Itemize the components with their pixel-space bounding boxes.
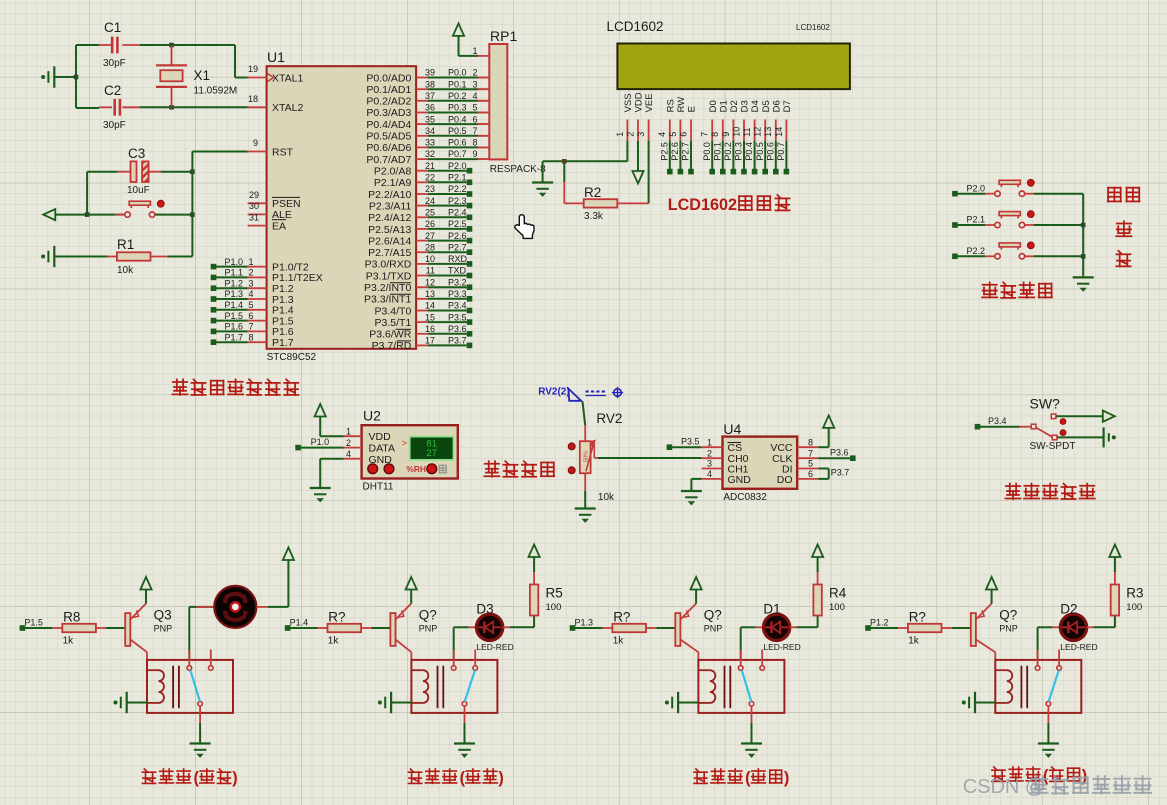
svg-text:P3.7/RD: P3.7/RD [372,340,412,352]
push button P2.1 [957,224,985,226]
svg-text:7: 7 [808,448,813,458]
svg-text:4: 4 [346,449,351,459]
pin P0.5/AD5 (34) wire to RP1 [416,135,428,137]
wire [1034,255,1083,257]
wire (pole to LED D2) [1037,627,1039,658]
svg-text:LCD1602: LCD1602 [796,23,830,32]
led D3 LED-RED [476,614,502,640]
svg-text:LCD1602: LCD1602 [607,19,664,34]
svg-text:1: 1 [249,257,254,267]
pin CH0 (2) [702,457,723,459]
svg-text:P3.4: P3.4 [988,416,1007,426]
LCD pin 8 D1 [722,120,724,141]
svg-text:D3: D3 [476,602,493,617]
svg-text:11: 11 [742,127,752,136]
svg-text:P0.0: P0.0 [702,142,712,161]
svg-text:2: 2 [707,448,712,458]
svg-text:D6: D6 [771,100,782,112]
svg-text:P3.4: P3.4 [448,301,467,311]
relay contacts [1035,666,1040,671]
resistor pack RP1 RESPACK-8 [478,55,489,57]
collector wire [396,640,412,653]
relay contacts [451,666,456,671]
ground (DHT11) [310,487,331,489]
svg-text:P2.6: P2.6 [670,142,680,161]
pin P0.2/AD2 (37) wire to RP1 [416,100,428,102]
svg-text:6: 6 [678,132,688,137]
wire (LED to R4) [790,626,797,628]
transistor Q? PNP [675,613,680,646]
svg-text:5: 5 [472,103,477,113]
svg-text:LED-RED: LED-RED [476,642,513,652]
svg-text:P2.1/A9: P2.1/A9 [374,177,412,189]
svg-text:DATA: DATA [369,442,395,454]
svg-text:1k: 1k [63,636,75,647]
wire [583,402,586,426]
svg-text:P0.2: P0.2 [448,91,467,101]
ground (coil, lying) [665,701,669,705]
svg-text:P2.5: P2.5 [659,142,669,161]
ground (relay contact) [1038,742,1059,744]
wire [371,627,390,629]
LCD1602 display body [617,44,850,90]
wire [86,172,88,215]
svg-text:3: 3 [707,459,712,469]
overline INT1 [390,293,411,295]
svg-text:R1: R1 [117,237,134,252]
svg-text:D1: D1 [718,100,729,112]
svg-text:14: 14 [774,127,784,137]
text jidianqi chushi [142,769,155,783]
push button P2.2 [957,255,985,257]
svg-text:Q?: Q? [704,608,722,623]
svg-text:7: 7 [700,132,710,137]
junction [562,159,567,164]
svg-text:1k: 1k [613,636,625,647]
relay coil [147,669,159,671]
svg-text:R4: R4 [829,586,847,601]
LCD pin 3 VEE [648,120,650,141]
svg-text:P2.2/A10: P2.2/A10 [368,189,411,201]
svg-text:2: 2 [472,68,477,78]
svg-text:P0.7: P0.7 [776,142,786,161]
pin P2.2/A10 (23) with terminal P2.2 [416,193,428,195]
ground (coil, lying) [114,701,118,705]
pin P2.4/A12 (25) with terminal P2.4 [416,216,428,218]
text huoer chuanganqi [1005,484,1020,499]
pin P1.1/T2EX (2) with terminal P1.1 [248,276,267,278]
svg-text:P1.0: P1.0 [225,257,244,267]
svg-text:30pF: 30pF [103,58,126,69]
terminal P2.2 [952,254,958,260]
pin P0.6/AD6 (33) wire to RP1 [416,146,428,148]
wire (pole to LED D1) [740,627,742,658]
svg-text:R3: R3 [1126,586,1143,601]
pin P3.3/INT1 (13) with terminal P3.3 [416,298,428,300]
wire [54,76,76,78]
svg-text:38: 38 [425,79,435,89]
svg-text:(: ( [460,769,466,787]
pin P1.3 (4) with terminal P1.3 [248,298,267,300]
terminal P2.0 [952,191,958,197]
svg-text:D1: D1 [763,602,780,617]
power (R5) [529,545,540,558]
svg-text:R2: R2 [584,185,601,200]
svg-text:32: 32 [425,149,435,159]
collector wire [976,640,995,653]
pin P2.3/A11 (24) with terminal P2.3 [416,205,428,207]
pin P3.6/WR (16) with terminal P3.6 [416,333,428,335]
pin P2.5/A13 (26) with terminal P2.5 [416,228,428,230]
svg-text:P3.5: P3.5 [681,437,700,447]
ground (left of C1/C2) [41,75,45,79]
resistor R? 1k [575,627,603,629]
svg-text:26: 26 [425,219,435,229]
pin P3.1/TXD (11) with terminal TXD [416,275,428,277]
relay box [147,660,233,713]
text du [439,465,446,473]
svg-text:23: 23 [425,184,435,194]
svg-text:16: 16 [425,324,435,334]
junction [74,75,79,80]
svg-text:14: 14 [425,301,435,311]
svg-text:31: 31 [249,212,259,222]
pin XTAL1 (19) [248,77,267,79]
svg-text:D2: D2 [1060,602,1077,617]
wire (NO throw to power arrow) [1056,415,1103,417]
terminal P1.2 [865,625,871,631]
junction [1081,254,1086,259]
svg-text:P3.7: P3.7 [831,467,850,477]
pin P2.0/A8 (21) with terminal P2.0 [416,170,428,172]
svg-text:12: 12 [425,277,435,287]
svg-text:P2.2: P2.2 [448,184,467,194]
transistor Q3 PNP [125,613,130,646]
svg-text:18: 18 [248,94,258,104]
svg-text:PNP: PNP [154,624,173,634]
svg-text:15: 15 [425,312,435,322]
svg-text:(: ( [194,769,200,787]
svg-text:U4: U4 [723,421,741,437]
pin P2.7/A15 (28) with terminal P2.7 [416,251,428,253]
svg-text:>: > [402,438,408,449]
junction [1081,223,1086,228]
svg-text:36: 36 [425,103,435,113]
LCD pin 4 RS [669,120,671,141]
transistor Q? PNP [971,613,976,646]
svg-text:R5: R5 [546,586,563,601]
svg-text:P1.4: P1.4 [290,618,309,628]
svg-text:100: 100 [546,602,562,613]
svg-text:P3.2: P3.2 [448,277,467,287]
svg-text:P3.3: P3.3 [448,289,467,299]
svg-text:P2.5: P2.5 [448,219,467,229]
pin 4 RP1 [478,100,489,102]
text shezhi [1108,188,1121,202]
junction [169,105,174,110]
svg-text:GND: GND [728,474,752,486]
svg-text:8: 8 [472,138,477,148]
ground (buttons) [1073,276,1094,278]
svg-text:P0.6: P0.6 [765,142,775,161]
pin P0.4/AD4 (35) wire to RP1 [416,123,428,125]
svg-text:SW-SPDT: SW-SPDT [1030,441,1076,452]
led D2 LED-RED [1060,614,1086,640]
pin EA (31) [248,225,267,227]
svg-text:P3.5: P3.5 [448,312,467,322]
svg-text:D0: D0 [708,100,719,112]
svg-text:P1.3: P1.3 [225,289,244,299]
ground (coil, lying) [962,701,966,705]
svg-text:2: 2 [625,132,635,137]
svg-text:P2.7/A15: P2.7/A15 [368,247,411,259]
relay coil [698,669,710,671]
svg-text:P2.1: P2.1 [967,215,986,225]
svg-text:TXD: TXD [448,266,467,276]
svg-text:R8: R8 [63,610,80,625]
relay core [724,666,726,709]
svg-text:EA: EA [272,220,286,232]
svg-text:8: 8 [808,437,813,447]
pin 5 RP1 [478,112,489,114]
svg-text:SW?: SW? [1030,396,1061,412]
capacitor C2 [99,106,112,108]
ground (lying, switch) [1112,435,1116,439]
relay switch arm [190,670,200,701]
svg-text:28: 28 [425,242,435,252]
svg-text:17: 17 [425,336,435,346]
svg-text:P0.2: P0.2 [723,142,733,161]
junction [190,212,195,217]
svg-text:P0.2/AD2: P0.2/AD2 [366,96,411,108]
svg-text:1: 1 [346,426,351,436]
svg-text:P2.0: P2.0 [967,183,986,193]
svg-text:C1: C1 [104,20,121,35]
junction node XTAL1 top [169,43,174,48]
svg-text:VDD: VDD [369,431,392,443]
svg-text:(: ( [745,769,751,787]
DHT11 display screen [410,437,454,460]
svg-text:P0.0/AD0: P0.0/AD0 [366,72,411,84]
terminal P2.1 [952,222,958,228]
svg-text:3: 3 [249,278,254,288]
svg-text:XTAL2: XTAL2 [272,102,303,114]
svg-text:P0.4/AD4: P0.4/AD4 [366,119,411,131]
svg-text:P1.2: P1.2 [870,618,889,628]
svg-text:RP1: RP1 [490,28,517,44]
svg-text:P3.1/TXD: P3.1/TXD [366,270,412,282]
pin CS (1) terminal P3.5 [667,444,673,450]
LCD pin 6 E [690,120,692,141]
power (R3) [1109,545,1120,558]
pin P3.2/INT0 (12) with terminal P3.2 [416,286,428,288]
svg-text:P2.2: P2.2 [967,246,986,256]
capacitor C3 10uF [87,171,117,173]
svg-text:P2.1: P2.1 [448,173,467,183]
LCD pin 14 D7 [785,120,787,141]
LCD pin 7 D0 [711,120,713,141]
svg-text:7: 7 [249,322,254,332]
svg-text:P0.1: P0.1 [448,79,467,89]
pin CLK (7) terminal P3.6 [797,457,818,459]
svg-text:10: 10 [731,127,741,137]
svg-text:P0.4: P0.4 [448,114,467,124]
wire (motor to power) [256,606,268,608]
junction [85,212,90,217]
svg-text:37: 37 [425,91,435,101]
svg-text:P1.5: P1.5 [24,618,43,628]
svg-text:RS: RS [665,99,676,112]
svg-text:P1.6: P1.6 [225,322,244,332]
terminal P3.4 [975,424,981,430]
power (Q3 emitter) [140,577,151,590]
svg-text:U2: U2 [363,408,381,424]
svg-text:P0.6: P0.6 [448,138,467,148]
svg-text:P1.7: P1.7 [272,337,294,349]
svg-text:10uF: 10uF [127,185,150,196]
ground (RV2) [575,507,596,509]
relay core [172,666,174,709]
svg-text:10k: 10k [117,265,134,276]
collector wire [680,640,698,653]
wire [320,435,343,437]
svg-text:RW: RW [676,97,687,113]
svg-text:): ) [232,769,237,787]
svg-text:6: 6 [808,469,813,479]
svg-text:R?: R? [613,610,630,625]
svg-text:X1: X1 [194,68,211,83]
svg-text:30: 30 [249,201,259,211]
svg-text:13: 13 [425,289,435,299]
pin P1.2 (3) with terminal P1.2 [248,287,267,289]
LCD pin 2 VDD [637,120,639,141]
svg-text:1k: 1k [328,636,340,647]
resistor R4 100 [817,600,819,615]
svg-text:P1.2: P1.2 [225,278,244,288]
relay box [411,660,497,713]
svg-text:P3.3/INT1: P3.3/INT1 [364,294,411,306]
svg-text:D2: D2 [729,100,740,112]
svg-text:RXD: RXD [448,254,468,264]
pin XTAL2 (18) [248,106,267,108]
relay coil [995,669,1007,671]
svg-text:24: 24 [425,196,435,206]
svg-text:DO: DO [777,474,793,486]
wire (contact to ground) [464,706,466,723]
svg-text:39: 39 [425,68,435,78]
pin P1.4 (5) with terminal P1.4 [248,309,267,311]
pin PSEN (29) [248,202,267,204]
LCD pin 12 D5 [764,120,766,141]
svg-text:9: 9 [721,132,731,137]
wire [584,473,586,491]
svg-text:P1.4: P1.4 [225,300,244,310]
potentiometer RV2 10k [584,425,586,441]
svg-text:3.3k: 3.3k [584,211,604,222]
svg-text:P3.6: P3.6 [830,448,849,458]
wire [691,478,701,480]
svg-text:2: 2 [346,438,351,448]
pin P0.1/AD1 (38) wire to RP1 [416,88,428,90]
wire (pole to motor) [188,607,190,659]
text jidianqi xiaodu [694,769,707,783]
svg-text:): ) [784,769,789,787]
resistor R? 1k [290,627,318,629]
overline WR [396,328,412,330]
svg-text:P2.5/A13: P2.5/A13 [368,224,411,236]
ground (coil, lying) [378,701,382,705]
pin P1.5 (6) with terminal P1.5 [248,320,267,322]
pin VDD (1) [344,435,362,437]
svg-text:9: 9 [472,149,477,159]
pin P0.3/AD3 (36) wire to RP1 [416,112,428,114]
svg-text:35: 35 [425,114,435,124]
svg-text:P2.0/A8: P2.0/A8 [374,166,412,178]
svg-text:P2.3: P2.3 [448,196,467,206]
wire VEE down [648,141,650,204]
LCD pin 5 RW [679,120,681,141]
relay box [698,660,784,713]
svg-text:RV2: RV2 [596,411,622,426]
mouse cursor [515,215,534,239]
svg-text:P3.6/WR: P3.6/WR [369,329,411,341]
pin 9 RP1 [478,158,489,160]
op-amp U1 STC89C52 body [267,66,417,349]
wire (LED to R3) [1087,626,1094,628]
svg-text:P0.7/AD7: P0.7/AD7 [366,154,411,166]
svg-text:P0.1/AD1: P0.1/AD1 [366,84,411,96]
wire DI-DO bracket P3.7 [818,468,829,470]
pin 2 RP1 [478,77,489,79]
svg-text:11.0592M: 11.0592M [194,86,238,97]
pin 8 RP1 [478,146,489,148]
LCD pin 13 D6 [775,120,777,141]
ground (relay contact) [454,742,475,744]
svg-text:P2.6: P2.6 [448,231,467,241]
relay core [437,666,439,709]
wire [106,627,125,629]
svg-text:P0.0: P0.0 [448,68,467,78]
svg-text:LED-RED: LED-RED [1060,642,1097,652]
svg-text:D3: D3 [740,100,751,112]
svg-text:R?: R? [328,610,345,625]
svg-text:DHT11: DHT11 [363,482,394,493]
power down arrow (VDD) [632,171,643,184]
relay box [995,660,1081,713]
svg-text:P3.5/T1: P3.5/T1 [375,317,412,329]
svg-text:P0.1: P0.1 [712,142,722,161]
svg-text:13: 13 [763,127,773,137]
wire [320,458,343,460]
text jidianqi zhaoming [992,767,1005,781]
wire [140,44,235,46]
svg-text:P1.1: P1.1 [225,268,244,278]
svg-text:27: 27 [425,231,435,241]
capacitor C1 [99,44,112,46]
led D1 LED-RED [763,614,789,640]
svg-text:100: 100 [1126,602,1142,613]
pin P3.4/T0 (14) with terminal P3.4 [416,310,428,312]
wire [1034,224,1083,226]
text guangzhao tiaojie [484,461,499,477]
svg-text:4: 4 [707,469,712,479]
svg-text:D7: D7 [782,100,793,112]
svg-text:10: 10 [425,254,435,264]
pin P1.0/T2 (1) with terminal P1.0 [248,266,267,268]
resistor R5 100 [533,600,535,615]
svg-text:1: 1 [707,437,712,447]
wire (LED to R5) [503,626,510,628]
